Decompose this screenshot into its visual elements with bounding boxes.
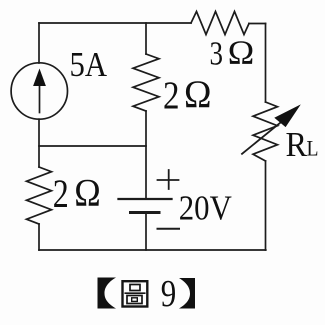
- wire right branch bottom: [265, 161, 267, 250]
- label 3 ohm: [210, 35, 255, 73]
- wire middle branch to battery: [145, 111, 147, 199]
- resistor R=3ohm zigzag (top): [191, 12, 249, 35]
- resistor 2ohm (middle) zigzag: [133, 54, 159, 111]
- wire right branch top: [265, 24, 267, 103]
- RL variable-resistor arrow shaft: [242, 121, 283, 154]
- wire left branch top: [38, 23, 40, 63]
- battery V1 short plate (-): [131, 211, 160, 214]
- svg-text:Ω: Ω: [184, 73, 212, 116]
- svg-text:5A: 5A: [70, 45, 108, 84]
- current source arrow shaft: [39, 84, 41, 113]
- svg-text:Ω: Ω: [74, 172, 101, 215]
- wire top-left horizontal: [39, 22, 191, 24]
- svg-text:R: R: [286, 125, 308, 164]
- caption character tu inner top box: [130, 285, 140, 291]
- svg-text:9: 9: [161, 273, 177, 315]
- wire top-right segment: [249, 23, 266, 25]
- label 2 ohm (middle): [163, 73, 212, 117]
- current source I1 circle: [11, 63, 67, 119]
- caption left bracket: [98, 278, 117, 309]
- svg-text:20V: 20V: [179, 189, 232, 228]
- battery V1 long plate (+): [119, 198, 172, 200]
- RL variable-resistor arrowhead: [274, 104, 301, 127]
- svg-text:2: 2: [163, 74, 180, 117]
- battery minus sign: [158, 228, 180, 230]
- caption character tu middle stroke: [125, 292, 144, 294]
- wire bottom horizontal: [39, 249, 266, 251]
- svg-text:3: 3: [210, 36, 224, 73]
- caption character tu (figure) outer box: [123, 281, 148, 306]
- wire left branch bottom: [38, 224, 40, 250]
- battery plus sign: [158, 170, 179, 189]
- wire middle branch top: [145, 23, 147, 54]
- svg-text:Ω: Ω: [228, 35, 255, 72]
- svg-text:2: 2: [53, 171, 69, 216]
- current source arrowhead: [33, 69, 46, 87]
- caption character tu lower box: [127, 296, 142, 304]
- wire middle branch bottom: [145, 213, 147, 251]
- svg-text:L: L: [307, 136, 319, 161]
- wire left branch middle: [38, 119, 40, 167]
- label 2 ohm (left): [53, 171, 101, 216]
- caption character tu innermost box: [132, 298, 138, 302]
- label RL: [286, 125, 319, 164]
- caption right bracket: [179, 278, 195, 309]
- wire middle horizontal node: [39, 145, 146, 147]
- resistor RL zigzag: [253, 102, 278, 161]
- resistor 2ohm (left) zigzag: [27, 167, 52, 224]
